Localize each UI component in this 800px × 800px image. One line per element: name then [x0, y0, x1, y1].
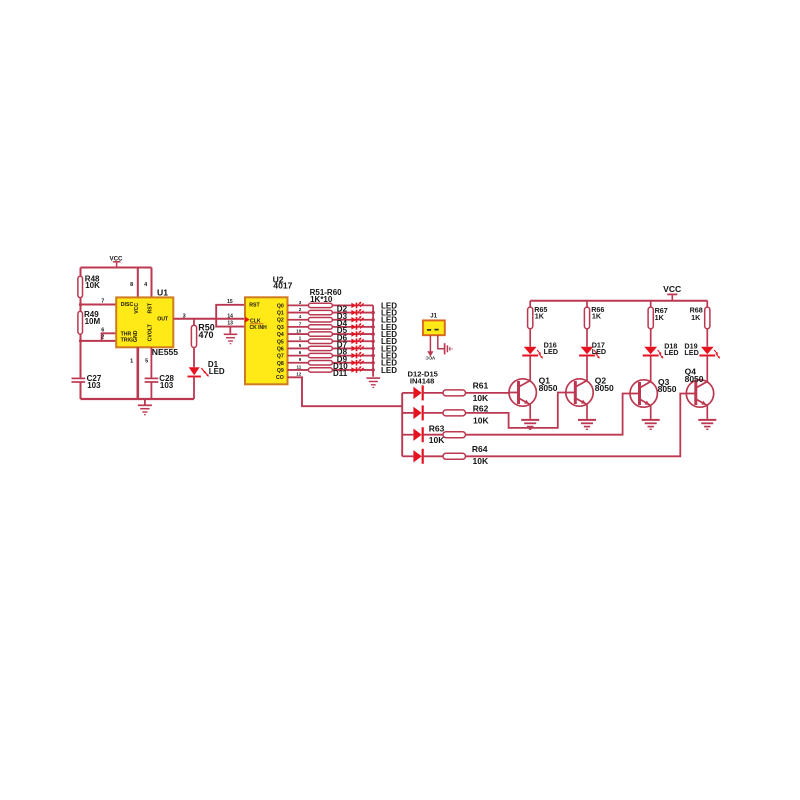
svg-text:7: 7 [101, 298, 104, 304]
svg-text:10K: 10K [85, 281, 100, 290]
svg-text:10: 10 [296, 328, 302, 333]
svg-text:LED: LED [664, 348, 678, 357]
svg-text:Q6: Q6 [277, 346, 284, 352]
svg-text:D11: D11 [333, 369, 348, 378]
svg-text:1K: 1K [691, 313, 701, 322]
svg-text:8050: 8050 [539, 383, 558, 393]
svg-text:J1: J1 [430, 313, 437, 319]
svg-text:Q0: Q0 [277, 303, 284, 309]
svg-text:10K: 10K [473, 415, 489, 425]
svg-text:GND: GND [133, 330, 139, 342]
svg-text:1K: 1K [592, 311, 602, 320]
svg-text:14: 14 [227, 313, 233, 319]
svg-text:U1: U1 [157, 288, 168, 298]
svg-text:RST: RST [249, 303, 260, 309]
svg-text:4017: 4017 [273, 281, 292, 291]
svg-text:15: 15 [227, 299, 233, 305]
svg-text:R62: R62 [473, 403, 489, 413]
svg-text:Q9: Q9 [277, 368, 284, 374]
svg-text:8050: 8050 [658, 384, 677, 394]
svg-text:470: 470 [199, 330, 214, 340]
svg-text:12: 12 [296, 372, 302, 377]
svg-text:RST: RST [147, 302, 153, 313]
svg-text:103: 103 [160, 381, 174, 390]
svg-text:8050: 8050 [685, 374, 704, 384]
svg-text:Q2: Q2 [277, 318, 284, 324]
svg-text:TRIG: TRIG [121, 337, 133, 343]
svg-text:10K: 10K [429, 435, 445, 445]
svg-text:Q8: Q8 [277, 361, 284, 367]
svg-text:1K*10: 1K*10 [310, 295, 333, 304]
svg-text:6: 6 [101, 327, 104, 333]
svg-text:VCC: VCC [134, 303, 140, 314]
svg-text:10K: 10K [473, 456, 489, 466]
svg-text:10K: 10K [473, 393, 489, 403]
svg-text:LED: LED [684, 348, 698, 357]
svg-text:DISC: DISC [121, 302, 134, 308]
svg-text:R61: R61 [473, 381, 489, 391]
svg-text:R63: R63 [429, 424, 445, 434]
svg-text:OUT: OUT [157, 317, 169, 323]
svg-text:CO: CO [276, 375, 284, 381]
svg-text:VCC: VCC [663, 284, 681, 294]
svg-text:LED: LED [592, 347, 606, 356]
svg-text:8050: 8050 [595, 383, 614, 393]
svg-text:VCC: VCC [425, 356, 435, 361]
svg-text:LED: LED [381, 366, 397, 375]
svg-text:11: 11 [297, 364, 302, 369]
svg-text:1: 1 [130, 359, 133, 365]
svg-text:NE555: NE555 [152, 347, 178, 357]
svg-text:R64: R64 [472, 444, 488, 454]
svg-text:1K: 1K [655, 313, 665, 322]
svg-text:Q4: Q4 [277, 332, 284, 338]
svg-text:CK INH: CK INH [250, 325, 268, 331]
svg-text:Q3: Q3 [277, 325, 284, 331]
svg-text:10M: 10M [85, 317, 101, 326]
svg-text:LED: LED [209, 367, 225, 376]
svg-text:5: 5 [145, 359, 148, 365]
svg-text:Q5: Q5 [277, 339, 284, 345]
svg-text:IN4148: IN4148 [410, 376, 435, 385]
svg-text:LED: LED [544, 347, 558, 356]
svg-text:103: 103 [87, 381, 101, 390]
svg-text:1K: 1K [535, 311, 545, 320]
svg-text:13: 13 [227, 321, 233, 327]
svg-text:2: 2 [101, 334, 104, 340]
svg-text:Q7: Q7 [277, 354, 284, 360]
svg-text:CVOLT: CVOLT [147, 323, 153, 341]
svg-text:8: 8 [130, 282, 133, 288]
svg-text:Q1: Q1 [277, 311, 284, 317]
